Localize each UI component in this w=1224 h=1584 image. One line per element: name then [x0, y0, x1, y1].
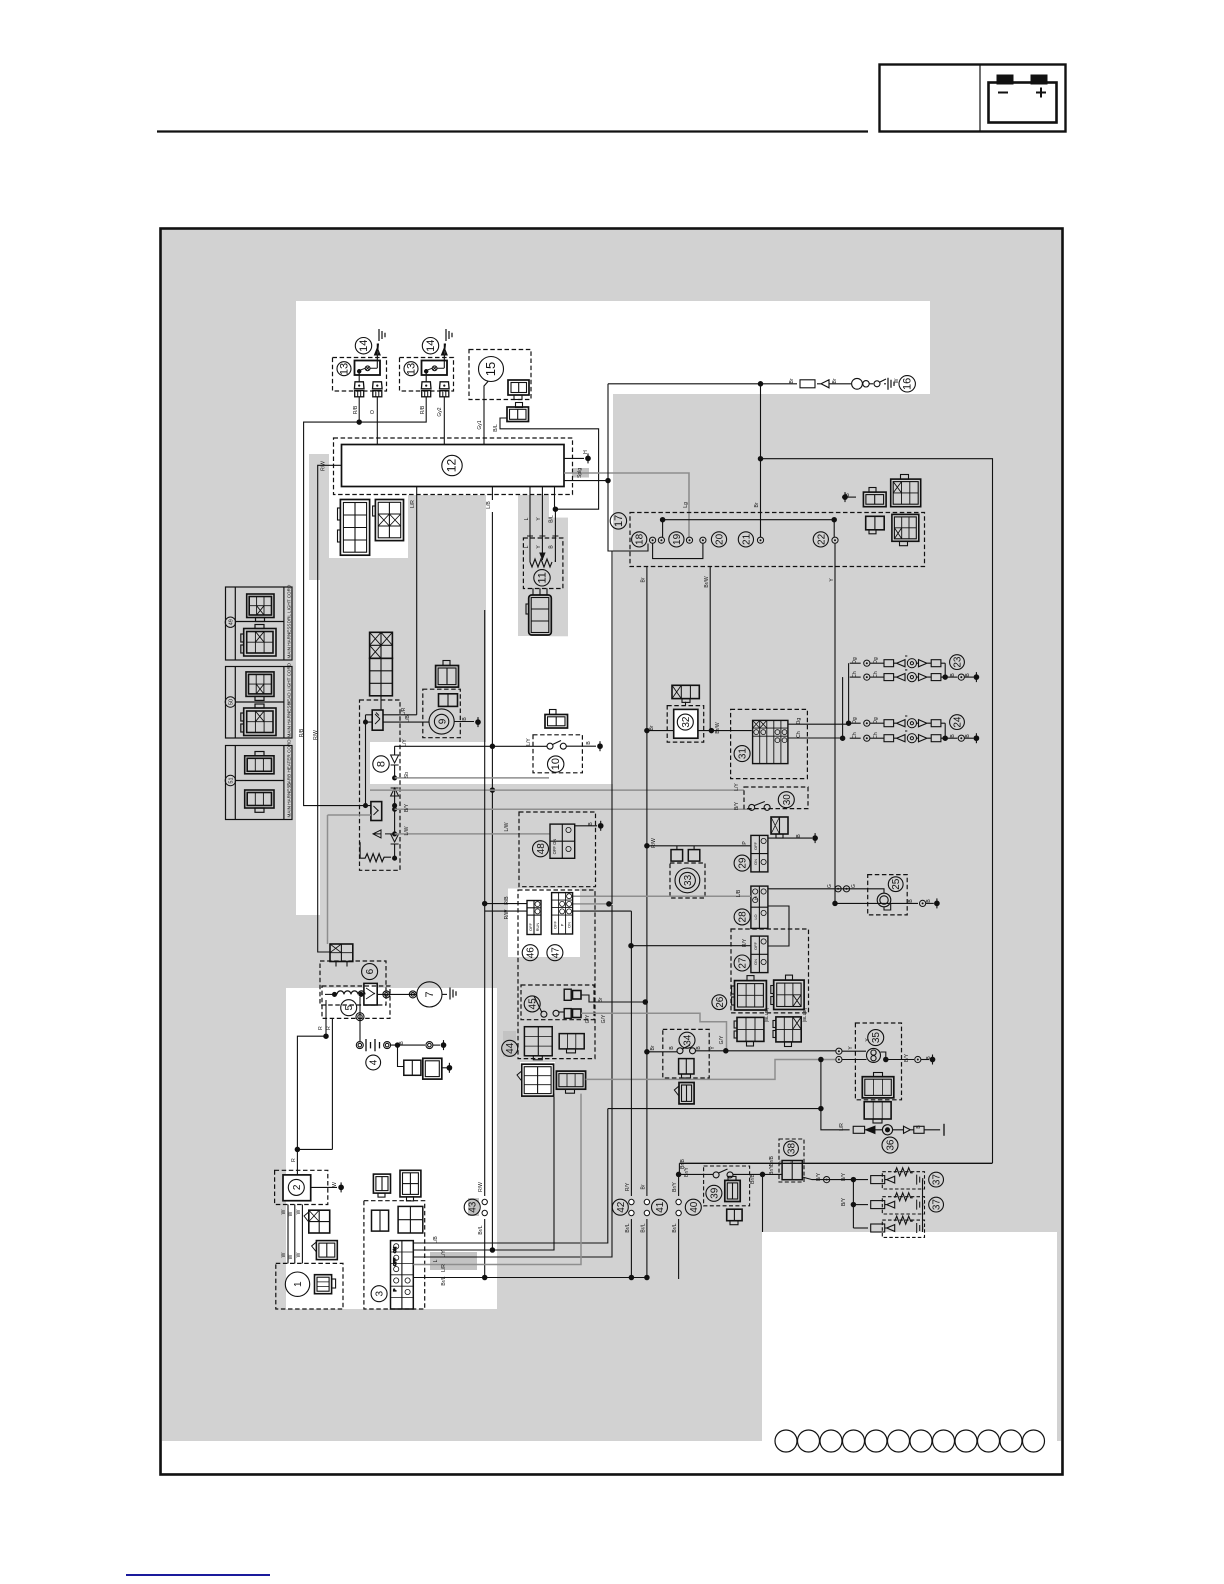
box 11 thermo — [523, 538, 563, 589]
svg-text:8: 8 — [376, 761, 388, 767]
svg-text:Br/L: Br/L — [672, 1223, 678, 1232]
harness box texts — [228, 584, 291, 817]
svg-text:B/Y: B/Y — [734, 801, 740, 810]
svg-text:G/Y: G/Y — [601, 1014, 607, 1023]
svg-text:B/L: B/L — [493, 424, 499, 432]
svg-text:ON: ON — [392, 1247, 397, 1253]
svg-text:L/B: L/B — [405, 715, 411, 723]
svg-text:G: G — [851, 884, 857, 888]
svg-text:W: W — [296, 1209, 302, 1214]
box 39 — [704, 1166, 750, 1206]
svg-text:R/W: R/W — [313, 730, 319, 740]
svg-text:37: 37 — [932, 1199, 943, 1211]
svg-text:Br: Br — [641, 577, 647, 582]
below 17 wires — [646, 567, 648, 1197]
svg-text:38: 38 — [787, 1143, 798, 1155]
svg-text:Dg: Dg — [852, 657, 858, 664]
svg-text:44: 44 — [505, 1042, 516, 1054]
battery icon — [989, 75, 1057, 123]
svg-text:R/W: R/W — [651, 838, 657, 848]
Gy2 wire — [443, 397, 445, 445]
B/Y wire from 38 — [802, 1177, 868, 1180]
bottom wire bus from 3 — [413, 1109, 608, 1243]
top right connectors — [891, 475, 921, 507]
svg-text:37: 37 — [932, 1174, 943, 1186]
svg-text:R/B: R/B — [299, 728, 305, 737]
svg-text:20: 20 — [715, 533, 726, 545]
ground 14 right — [446, 329, 452, 341]
svg-text:CARB HEATER CORD: CARB HEATER CORD — [286, 739, 291, 787]
box 1 magneto — [276, 1263, 343, 1309]
box 10 — [533, 735, 582, 773]
bottom circles row — [775, 1430, 1045, 1452]
svg-text:ON: ON — [567, 922, 572, 928]
svg-text:Dg: Dg — [796, 718, 802, 725]
svg-text:L/Y: L/Y — [441, 1250, 447, 1258]
svg-text:Br/W: Br/W — [715, 722, 721, 733]
svg-text:W: W — [288, 1254, 294, 1259]
svg-text:Br/B: Br/B — [750, 1173, 756, 1183]
svg-text:32: 32 — [681, 716, 692, 728]
svg-text:14: 14 — [358, 340, 370, 352]
wire relay13L to ground — [375, 344, 381, 361]
svg-text:L: L — [433, 1259, 439, 1262]
svg-text:L/R: L/R — [401, 707, 407, 715]
svg-text:1: 1 — [293, 1281, 304, 1287]
switch 27 — [751, 936, 768, 973]
svg-text:25: 25 — [891, 878, 902, 890]
svg-text:18: 18 — [635, 533, 646, 545]
svg-text:Br: Br — [754, 502, 760, 507]
connector blocks below 12 — [338, 500, 370, 556]
svg-text:MAIN HARNESS: MAIN HARNESS — [286, 783, 291, 818]
box 38 — [779, 1139, 804, 1182]
svg-text:11: 11 — [537, 572, 549, 583]
svg-text:R: R — [291, 1158, 297, 1162]
svg-text:L/R: L/R — [441, 1264, 447, 1272]
svg-text:42: 42 — [616, 1201, 627, 1213]
vertical A — [608, 384, 648, 551]
svg-text:H: H — [583, 450, 589, 454]
svg-text:40: 40 — [689, 1201, 700, 1213]
svg-text:30: 30 — [782, 794, 793, 806]
box 34 — [663, 1029, 709, 1078]
26 connectors — [712, 995, 727, 1010]
svg-text:Sb: Sb — [404, 772, 410, 778]
O wire — [376, 397, 378, 445]
lower stub to junction — [564, 480, 608, 482]
harness box B (head light cord) — [225, 667, 292, 739]
B-B connector pair — [398, 1045, 404, 1066]
svg-text:L/B: L/B — [433, 1236, 439, 1244]
svg-text:B/Y: B/Y — [816, 1172, 822, 1181]
svg-text:Br: Br — [789, 378, 795, 383]
svg-text:LO: LO — [753, 914, 758, 919]
svg-text:51: 51 — [228, 777, 234, 783]
svg-text:Br/Y: Br/Y — [769, 1164, 775, 1174]
svg-text:OFF: OFF — [753, 941, 758, 950]
svg-text:R/B: R/B — [504, 896, 510, 905]
svg-text:R/Y: R/Y — [742, 938, 748, 947]
box 44 — [518, 890, 595, 1059]
svg-text:Ch: Ch — [873, 671, 879, 678]
svg-text:5: 5 — [344, 1004, 355, 1010]
white cutout regions — [162, 301, 1061, 1473]
svg-text:Br: Br — [649, 725, 655, 730]
wires from 8 to 9 — [383, 714, 417, 716]
svg-text:Br/L: Br/L — [478, 1225, 484, 1234]
svg-text:L/Y: L/Y — [734, 783, 740, 791]
svg-text:OFF: OFF — [392, 1257, 397, 1266]
svg-text:Gy1: Gy1 — [477, 420, 483, 429]
svg-text:Dg: Dg — [873, 657, 879, 664]
W wires — [288, 1205, 302, 1264]
harness box A (DRL light cord) — [225, 587, 292, 660]
box 17 — [630, 513, 925, 567]
svg-text:9: 9 — [437, 718, 448, 724]
ground 14 left — [379, 329, 385, 341]
connecting verticals from 31 — [848, 663, 850, 723]
svg-text:41: 41 — [655, 1201, 666, 1213]
svg-text:14: 14 — [425, 340, 437, 352]
svg-text:21: 21 — [741, 533, 752, 545]
svg-text:R: R — [326, 1026, 332, 1030]
R/W wire left — [318, 465, 342, 952]
harness box C (carb heater cord) — [225, 746, 292, 820]
svg-text:Br/L: Br/L — [641, 1223, 647, 1232]
svg-text:O: O — [370, 410, 376, 414]
svg-text:45: 45 — [528, 998, 539, 1010]
svg-text:Br/L: Br/L — [441, 1276, 447, 1285]
32 lower circle — [670, 863, 705, 898]
svg-text:31: 31 — [738, 748, 749, 760]
box 15 : diode unit — [469, 350, 531, 400]
svg-text:26: 26 — [715, 996, 726, 1008]
X connector near W wires — [304, 1210, 330, 1233]
svg-text:OFF: OFF — [528, 922, 533, 931]
svg-text:L/Y: L/Y — [402, 739, 408, 747]
svg-text:R/W: R/W — [478, 1182, 484, 1192]
svg-text:B/L: B/L — [548, 515, 554, 523]
Splg gray wire — [564, 473, 689, 535]
svg-text:Br/Y: Br/Y — [684, 1166, 690, 1176]
wires below 12 — [416, 487, 418, 715]
svg-text:G: G — [827, 884, 833, 888]
L/Y across to 10 — [395, 745, 547, 747]
svg-text:P: P — [392, 1288, 397, 1291]
box 31 — [731, 709, 808, 778]
svg-text:(BLUE): (BLUE) — [764, 1007, 769, 1022]
svg-text:13: 13 — [339, 363, 351, 375]
svg-text:15: 15 — [483, 362, 498, 376]
svg-text:Br/L: Br/L — [625, 1223, 631, 1232]
vertical from 16 wire — [760, 384, 762, 537]
svg-text:34: 34 — [683, 1034, 694, 1046]
box 30 — [744, 787, 808, 809]
svg-text:S1: S1 — [778, 1159, 783, 1165]
H stub — [564, 457, 584, 459]
svg-text:ON: ON — [753, 959, 758, 965]
svg-text:Br: Br — [650, 1045, 656, 1050]
svg-text:35: 35 — [871, 1032, 882, 1044]
svg-text:28: 28 — [738, 911, 749, 923]
svg-text:24: 24 — [953, 716, 964, 728]
svg-text:46: 46 — [526, 947, 537, 959]
svg-text:Br/B: Br/B — [769, 1155, 775, 1165]
svg-text:L: L — [524, 545, 530, 548]
svg-text:6: 6 — [365, 968, 376, 974]
connector Gy/B1 below 15 — [507, 403, 529, 422]
svg-text:17: 17 — [613, 515, 625, 527]
svg-text:B/Y: B/Y — [841, 1172, 847, 1181]
svg-text:B/Y: B/Y — [904, 1053, 910, 1062]
X column connector above 8 — [370, 632, 393, 696]
svg-text:10: 10 — [550, 758, 562, 770]
svg-text:13: 13 — [406, 363, 418, 375]
svg-text:OFF: OFF — [553, 920, 558, 929]
L/W to 48 (gray) — [395, 833, 550, 835]
svg-text:Br: Br — [641, 1184, 647, 1189]
connectors above 9 — [436, 661, 459, 688]
svg-text:Br/Y: Br/Y — [672, 1181, 678, 1191]
svg-text:16: 16 — [902, 378, 914, 390]
svg-text:Br: Br — [832, 378, 838, 383]
right verticals — [922, 1180, 924, 1232]
header rule — [157, 130, 868, 132]
box 2 regulator — [275, 1170, 328, 1204]
16 circuit — [608, 383, 797, 385]
svg-text:W: W — [332, 1182, 338, 1187]
R/B bus wire — [304, 397, 427, 806]
svg-text:R: R — [318, 1026, 324, 1030]
X connector above 32 — [672, 685, 699, 702]
svg-text:4: 4 — [369, 1059, 380, 1065]
box 45 — [521, 985, 594, 1020]
svg-text:L: L — [524, 517, 530, 520]
svg-text:W: W — [296, 1252, 302, 1257]
svg-text:(BLUE): (BLUE) — [802, 1007, 807, 1022]
svg-text:Ch: Ch — [852, 671, 858, 678]
twin plugs of 32 lower — [677, 846, 694, 850]
circled 8 / 10 — [373, 756, 389, 772]
svg-text:W: W — [894, 378, 900, 383]
svg-text:L/Y: L/Y — [526, 738, 532, 746]
svg-text:43: 43 — [468, 1201, 479, 1213]
box 12 main — [334, 438, 573, 495]
connector below 11 — [526, 588, 551, 635]
gray re-patches on white — [309, 454, 568, 636]
row 24 — [850, 715, 979, 744]
46 / 47 switches — [527, 901, 541, 935]
svg-text:Dg: Dg — [852, 717, 858, 724]
svg-text:W: W — [281, 1209, 287, 1214]
svg-text:Gy2: Gy2 — [437, 407, 443, 416]
L/Y to 30 (gray) — [370, 790, 752, 809]
svg-text:HEAD LIGHT CORD: HEAD LIGHT CORD — [286, 662, 291, 705]
svg-text:33: 33 — [683, 874, 694, 886]
B/L loop wire — [500, 418, 599, 509]
connector under 30 — [771, 817, 788, 838]
36 row — [821, 1060, 850, 1130]
footer blue line — [126, 1574, 270, 1576]
relay 13 right — [400, 358, 454, 397]
svg-text:Br: Br — [598, 997, 604, 1002]
box 3 main switch — [364, 1201, 425, 1309]
40 41 42 wires — [630, 911, 632, 1196]
svg-text:3: 3 — [375, 1290, 386, 1296]
svg-text:22: 22 — [816, 533, 827, 545]
svg-text:48: 48 — [536, 843, 547, 855]
connector L/Y B above 10 — [545, 710, 568, 729]
svg-text:L/W: L/W — [504, 822, 510, 831]
svg-text:Ch: Ch — [796, 731, 802, 738]
svg-text:Splg: Splg — [577, 468, 583, 478]
svg-text:DRL LIGHT CORD: DRL LIGHT CORD — [286, 584, 291, 623]
svg-text:L/R: L/R — [410, 500, 416, 508]
box 9 headlight — [423, 689, 461, 738]
svg-text:Dg: Dg — [873, 717, 879, 724]
svg-text:Lg: Lg — [683, 502, 689, 508]
svg-text:L/B: L/B — [736, 889, 742, 897]
44 connectors — [524, 1027, 552, 1060]
svg-text:HI: HI — [753, 896, 758, 900]
Gy1 wire — [484, 382, 488, 445]
svg-text:B/Y: B/Y — [841, 1197, 847, 1206]
R wires down from 5 — [326, 1000, 332, 1149]
svg-text:12: 12 — [445, 459, 459, 473]
37 rows — [871, 1168, 925, 1189]
header box — [880, 65, 1066, 132]
svg-text:ON: ON — [753, 859, 758, 865]
svg-text:R/B: R/B — [420, 405, 426, 414]
4 battery row — [359, 997, 361, 1041]
svg-text:R/Y: R/Y — [625, 1182, 631, 1191]
box 32 upper (diode) — [667, 706, 704, 743]
svg-text:47: 47 — [550, 947, 561, 959]
svg-text:7: 7 — [424, 991, 436, 997]
svg-text:OFF: OFF — [753, 841, 758, 850]
B/Y lower — [395, 777, 549, 779]
svg-text:W: W — [281, 1252, 287, 1257]
box 8 flasher/relay assy — [360, 700, 401, 870]
svg-text:R/W: R/W — [504, 909, 510, 919]
43 break — [484, 610, 486, 1196]
Lg gray wire into 17 — [688, 535, 690, 537]
svg-text:50: 50 — [228, 699, 234, 705]
svg-text:MAIN HARNESS: MAIN HARNESS — [286, 703, 291, 738]
svg-text:RUN: RUN — [535, 923, 540, 932]
svg-text:Ch: Ch — [852, 732, 858, 739]
svg-text:MAIN HARNESS: MAIN HARNESS — [286, 624, 291, 659]
switch 28 — [751, 886, 768, 928]
switch 29 — [751, 835, 768, 872]
svg-text:G/Y: G/Y — [719, 1035, 725, 1044]
svg-text:Br/W: Br/W — [704, 576, 710, 587]
svg-text:2: 2 — [292, 1184, 303, 1190]
svg-text:23: 23 — [953, 656, 964, 668]
7 and contacts — [377, 993, 416, 995]
svg-text:L/B: L/B — [486, 501, 492, 509]
box 6 relay — [320, 961, 386, 1005]
svg-text:36: 36 — [886, 1139, 897, 1151]
svg-text:39: 39 — [709, 1187, 720, 1199]
connectors above 3 — [372, 1210, 389, 1231]
box 25 : motor — [868, 875, 908, 915]
svg-text:49: 49 — [228, 619, 234, 625]
svg-text:27: 27 — [738, 957, 749, 969]
svg-text:Ch: Ch — [873, 732, 879, 739]
internal wiring — [663, 520, 835, 537]
connector R/RW above 6 — [330, 944, 353, 967]
svg-text:OFF ON: OFF ON — [552, 839, 557, 855]
svg-text:19: 19 — [672, 533, 683, 545]
svg-text:W: W — [288, 1211, 294, 1216]
box 35 : motor — [855, 1023, 901, 1100]
wire relay13R to ground — [442, 344, 448, 361]
svg-text:G/Y: G/Y — [585, 1014, 591, 1023]
relay 13 left — [333, 358, 387, 397]
box 48 — [519, 812, 596, 887]
svg-text:29: 29 — [738, 857, 749, 869]
svg-text:B/Y: B/Y — [404, 803, 410, 812]
svg-text:P: P — [560, 923, 565, 926]
svg-text:L/R: L/R — [839, 1123, 845, 1131]
contacts — [650, 537, 656, 543]
labels top-left — [299, 405, 589, 740]
svg-text:R/B: R/B — [353, 405, 359, 414]
svg-text:L/W: L/W — [404, 826, 410, 835]
box 5 coil — [322, 986, 390, 1018]
svg-text:R/W: R/W — [321, 461, 327, 471]
